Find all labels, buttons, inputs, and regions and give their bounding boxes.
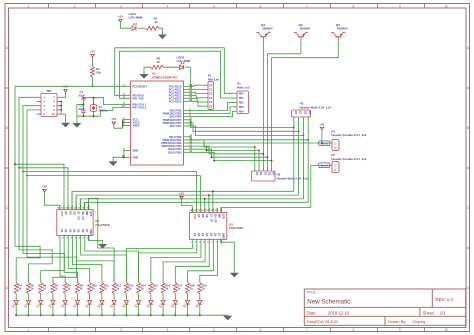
svg-text:Q7S: Q7S bbox=[222, 214, 226, 219]
svg-text:Q3: Q3 bbox=[201, 233, 205, 237]
svg-text:10: 10 bbox=[445, 328, 449, 332]
svg-text:ST_CP: ST_CP bbox=[209, 214, 213, 223]
svg-text:EasyEDA V5.8.22: EasyEDA V5.8.22 bbox=[307, 319, 340, 324]
svg-text:+5V: +5V bbox=[319, 123, 324, 127]
svg-text:C3: C3 bbox=[209, 96, 213, 100]
svg-text:DS: DS bbox=[201, 214, 205, 218]
svg-text:5: 5 bbox=[213, 4, 215, 8]
svg-text:Boot0: Boot0 bbox=[321, 142, 329, 145]
svg-text:ATMEGA328P-PU: ATMEGA328P-PU bbox=[152, 75, 177, 79]
svg-text:4: 4 bbox=[167, 328, 169, 332]
svg-text:Q5: Q5 bbox=[77, 229, 81, 233]
svg-text:LED-3MM: LED-3MM bbox=[177, 59, 191, 63]
svg-text:7: 7 bbox=[306, 328, 308, 332]
svg-text:ISP: ISP bbox=[47, 89, 52, 93]
svg-text:C1: C1 bbox=[209, 88, 213, 92]
svg-text:1k: 1k bbox=[155, 20, 159, 24]
svg-text:2018-12-10: 2018-12-10 bbox=[328, 310, 350, 315]
svg-text:PD4: PD4 bbox=[239, 109, 245, 113]
svg-text:+5V: +5V bbox=[118, 15, 123, 19]
svg-text:B: B bbox=[467, 126, 469, 130]
svg-text:Q2: Q2 bbox=[197, 233, 201, 237]
svg-text:PB7 XTAL2: PB7 XTAL2 bbox=[133, 106, 147, 110]
svg-text:Q6: Q6 bbox=[81, 229, 85, 233]
svg-text:8: 8 bbox=[352, 4, 354, 8]
svg-text:9: 9 bbox=[399, 4, 401, 8]
svg-text:1/1: 1/1 bbox=[440, 310, 446, 315]
svg-text:PD1 TXD: PD1 TXD bbox=[133, 96, 144, 100]
svg-text:MR: MR bbox=[218, 214, 222, 218]
svg-text:MR: MR bbox=[85, 211, 89, 215]
svg-text:10k: 10k bbox=[96, 70, 101, 74]
svg-text:Q5: Q5 bbox=[209, 233, 213, 237]
svg-text:PD0: PD0 bbox=[239, 91, 245, 95]
svg-text:LED-3MM: LED-3MM bbox=[129, 16, 143, 20]
svg-text:2N3904: 2N3904 bbox=[300, 27, 311, 31]
svg-text:New Schematic: New Schematic bbox=[307, 299, 350, 306]
svg-text:4: 4 bbox=[167, 4, 169, 8]
svg-text:OE: OE bbox=[205, 214, 209, 218]
svg-text:AREF: AREF bbox=[133, 124, 140, 128]
svg-text:Date:: Date: bbox=[307, 310, 317, 315]
svg-text:Sheet:: Sheet: bbox=[423, 310, 435, 315]
svg-text:GND: GND bbox=[133, 148, 139, 152]
svg-text:Header-Male-2.54_1x4: Header-Male-2.54_1x4 bbox=[300, 105, 332, 109]
svg-text:Clopeq: Clopeq bbox=[412, 319, 425, 324]
svg-text:GND: GND bbox=[133, 155, 139, 159]
svg-text:+5V: +5V bbox=[179, 192, 184, 196]
svg-text:Mal 1x6: Mal 1x6 bbox=[208, 77, 219, 81]
svg-text:2: 2 bbox=[74, 4, 76, 8]
svg-text:Q7: Q7 bbox=[85, 229, 89, 233]
svg-text:1: 1 bbox=[27, 328, 29, 332]
svg-text:Header-Male-2.54_1x5: Header-Male-2.54_1x5 bbox=[277, 176, 309, 180]
svg-text:74HC595E: 74HC595E bbox=[95, 223, 110, 227]
svg-text:5: 5 bbox=[213, 328, 215, 332]
svg-text:PD2: PD2 bbox=[239, 101, 245, 105]
svg-text:Q7: Q7 bbox=[218, 233, 222, 237]
svg-text:6: 6 bbox=[260, 4, 262, 8]
svg-text:PC5 ADC5: PC5 ADC5 bbox=[169, 99, 182, 103]
svg-text:Q0: Q0 bbox=[197, 214, 201, 218]
svg-text:SH_CP: SH_CP bbox=[213, 214, 217, 223]
svg-text:+5V: +5V bbox=[42, 185, 47, 189]
svg-text:Header-Female-2.54_1x2: Header-Female-2.54_1x2 bbox=[331, 157, 366, 161]
svg-text:Q6: Q6 bbox=[213, 233, 217, 237]
svg-text:Q1: Q1 bbox=[60, 229, 64, 233]
svg-text:1: 1 bbox=[27, 4, 29, 8]
svg-text:1k: 1k bbox=[157, 60, 161, 64]
svg-text:VCC: VCC bbox=[60, 211, 64, 217]
svg-text:Male 1x5: Male 1x5 bbox=[237, 85, 250, 89]
svg-text:8: 8 bbox=[352, 328, 354, 332]
svg-text:PD1: PD1 bbox=[239, 96, 245, 100]
svg-text:C0: C0 bbox=[209, 83, 213, 87]
svg-text:B: B bbox=[6, 126, 8, 130]
svg-text:+5V: +5V bbox=[111, 117, 116, 121]
svg-text:PD3: PD3 bbox=[239, 105, 245, 109]
svg-text:2: 2 bbox=[74, 328, 76, 332]
svg-text:PC6 RESET: PC6 RESET bbox=[133, 84, 148, 88]
svg-text:DIG7 PD7: DIG7 PD7 bbox=[170, 124, 182, 128]
svg-text:9: 9 bbox=[399, 328, 401, 332]
svg-text:Q4: Q4 bbox=[72, 229, 76, 233]
svg-text:2N3904: 2N3904 bbox=[337, 27, 348, 31]
svg-text:DS: DS bbox=[68, 211, 72, 215]
svg-text:22pF: 22pF bbox=[79, 93, 86, 97]
svg-text:VCC: VCC bbox=[193, 214, 197, 220]
svg-text:C4: C4 bbox=[209, 100, 213, 104]
svg-text:C5: C5 bbox=[209, 104, 213, 108]
svg-text:74HC595E: 74HC595E bbox=[229, 226, 244, 230]
svg-text:2N3904: 2N3904 bbox=[262, 27, 273, 31]
svg-text:OE: OE bbox=[72, 211, 76, 215]
svg-text:Header-Female-2.54_1x2: Header-Female-2.54_1x2 bbox=[331, 133, 366, 137]
svg-text:TITLE:: TITLE: bbox=[307, 291, 317, 295]
svg-text:Q4: Q4 bbox=[205, 233, 209, 237]
svg-text:REV: 1.0: REV: 1.0 bbox=[436, 297, 454, 302]
svg-text:ST_CP: ST_CP bbox=[77, 211, 81, 220]
svg-text:Q2: Q2 bbox=[64, 229, 68, 233]
svg-text:Drawn By:: Drawn By: bbox=[388, 319, 406, 324]
svg-text:DIG13 PB5: DIG13 PB5 bbox=[168, 150, 182, 154]
svg-text:Q3: Q3 bbox=[68, 229, 72, 233]
svg-text:C2: C2 bbox=[209, 92, 213, 96]
svg-text:+5V: +5V bbox=[90, 50, 95, 54]
svg-text:22pF: 22pF bbox=[79, 107, 86, 111]
svg-text:Boot1: Boot1 bbox=[321, 164, 329, 167]
svg-text:+5V: +5V bbox=[63, 85, 68, 89]
svg-text:Q0: Q0 bbox=[64, 211, 68, 215]
svg-text:Q1: Q1 bbox=[193, 233, 197, 237]
svg-text:10: 10 bbox=[445, 4, 449, 8]
svg-text:3: 3 bbox=[120, 328, 122, 332]
svg-text:6: 6 bbox=[260, 328, 262, 332]
svg-text:GND: GND bbox=[89, 229, 93, 235]
svg-text:7: 7 bbox=[306, 4, 308, 8]
svg-text:16MHz: 16MHz bbox=[99, 108, 108, 112]
svg-text:GND: GND bbox=[222, 233, 226, 239]
svg-text:Q7S: Q7S bbox=[89, 211, 93, 216]
svg-text:SH_CP: SH_CP bbox=[81, 211, 85, 220]
svg-text:3: 3 bbox=[120, 4, 122, 8]
